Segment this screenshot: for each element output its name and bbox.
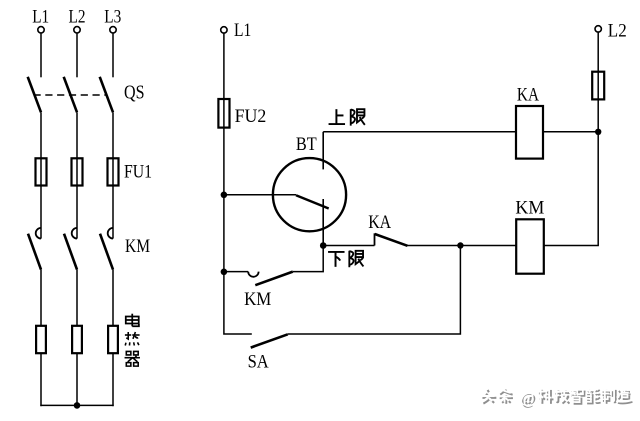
wire FU1-KM col1 [40,186,42,239]
left rail wire FU2 down to SA corner [224,128,252,334]
contactor KM aux contact wire from left junction [224,271,248,273]
switch QS pole 1 blade [28,77,41,113]
wire heater-bus col2 [76,353,78,405]
contactor KM aux contact blade [255,272,292,286]
wire QS-FU1 col3 [112,112,114,158]
contactor KM main contact 2 arc [72,228,77,239]
wire KA junction to KM coil [460,245,516,247]
contactor KM main contact 1 blade [28,234,41,270]
switch QS pole 2 blade [64,77,77,113]
label 下限 (lower limit) [328,251,363,267]
thermostat BT blade [296,195,329,208]
svg-text:L2: L2 [69,7,86,28]
wire L3 top [112,33,114,77]
contactor KM main contact 2 blade [64,234,77,270]
terminal L2 (control) [595,26,601,32]
wire KM coil to right rail [544,245,599,247]
fuse FU1 pole2 [72,158,83,185]
svg-text:FU2: FU2 [235,106,267,127]
relay contact KA blade [375,234,408,246]
junction dot right rail KA [595,129,601,135]
fuse (right rail) [592,72,604,100]
bottom bus wire [40,404,113,406]
contactor KM aux contact arc [248,272,258,277]
relay coil KA [516,106,543,159]
relay contact KA fixed stub [374,233,376,245]
wire L2 top [76,33,78,77]
contactor KM main contact 1 arc [36,228,41,239]
svg-text:@: @ [520,390,535,407]
svg-text:L3: L3 [104,7,121,28]
wire heater-bus col3 [112,353,114,406]
wire FU1-KM col3 [112,186,114,239]
svg-text:L1: L1 [32,7,49,28]
fuse FU2 [218,99,229,128]
svg-text:L2: L2 [608,20,627,41]
contactor KM main contact 3 arc [108,228,113,239]
contactor KM main contact 3 blade [100,234,113,270]
label 电热器 (electric heater) [125,314,140,366]
wire KM-heater col2 [76,270,78,326]
svg-text:FU1: FU1 [124,161,152,182]
terminal L1 [38,27,44,33]
junction dot bottom bus [74,402,81,409]
svg-text:QS: QS [124,81,145,103]
svg-text:KM: KM [244,289,271,310]
svg-text:SA: SA [248,351,269,372]
wire L1-FU2 [223,33,225,99]
watermark 头条 @科技智能制造 [481,388,633,408]
wire QS-FU1 col1 [40,112,42,158]
svg-text:L1: L1 [234,20,251,41]
terminal L2 [74,27,80,33]
wire heater-bus col1 [40,353,42,406]
thermostat BT circle [273,158,346,231]
junction dot lower-limit node [320,242,327,249]
wire junction down to SA line [288,246,461,335]
svg-text:BT: BT [296,134,317,155]
wire L2 down [597,32,599,71]
wire to BT [224,194,296,196]
label 上限 (upper limit) [329,109,365,125]
right rail wire [597,99,599,245]
wire lower-limit to KA contact [323,245,374,247]
heater element 1 [36,326,46,353]
BT lower fixed contact wire [322,199,324,246]
wire KM-heater col1 [40,270,42,326]
switch QS pole 3 blade [100,77,113,113]
svg-text:KM: KM [125,236,150,257]
QS linkage dashed line [34,94,107,96]
wire L1 top [40,33,42,77]
wire KA contact to junction [408,245,461,247]
svg-text:KA: KA [368,212,391,233]
wire KA coil to right rail [543,131,598,133]
wire FU1-KM col2 [76,186,78,239]
fuse FU1 pole3 [108,158,119,185]
wire KM-heater col3 [112,270,114,326]
switch SA blade [251,334,288,347]
heater element 3 [108,326,118,353]
terminal L3 [110,27,116,33]
wire upper-limit to KA coil [323,131,516,133]
svg-text:KM: KM [515,198,544,219]
svg-text:KA: KA [517,84,539,105]
junction dot left rail / KM aux [221,269,228,276]
contactor coil KM [516,219,544,273]
junction dot left rail / BT feed [221,192,228,199]
terminal L1 (control) [221,27,227,33]
junction dot KA/KM/SA node [457,242,463,248]
fuse FU1 pole1 [36,158,47,185]
BT upper fixed contact wire [322,132,324,170]
wire KM aux to lower-limit node [293,246,323,272]
wire QS-FU1 col2 [76,112,78,158]
heater element 2 [72,326,82,353]
